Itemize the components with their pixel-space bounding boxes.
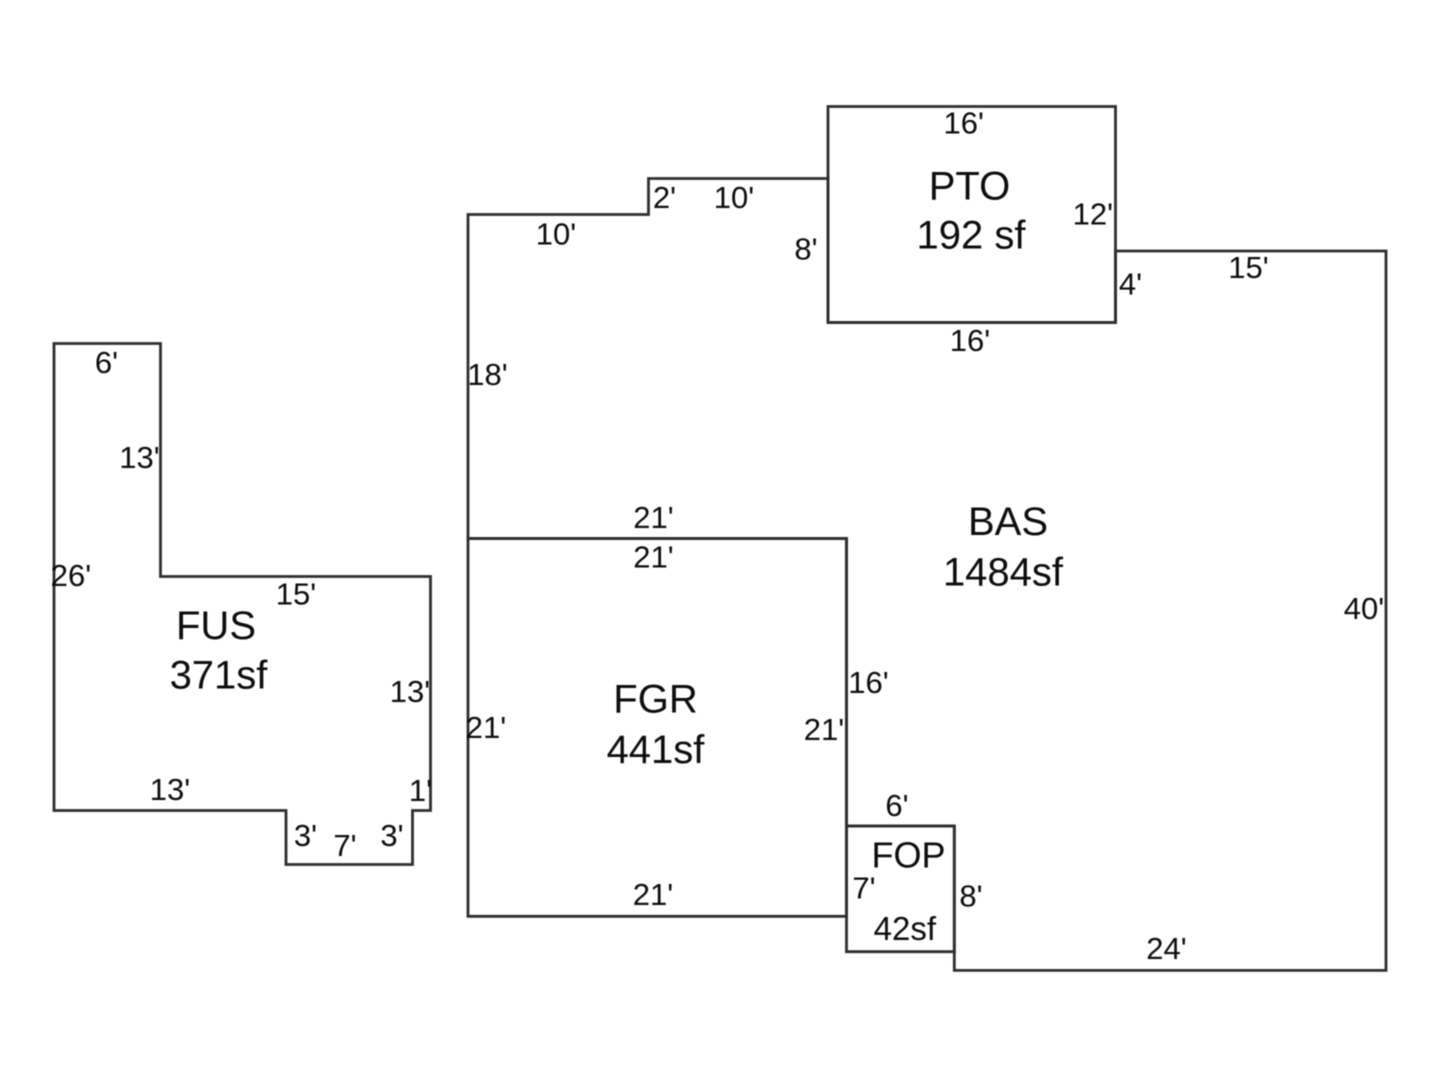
svg-text:16': 16' <box>950 323 990 358</box>
svg-text:26': 26' <box>51 558 91 593</box>
svg-text:21': 21' <box>633 540 673 575</box>
svg-text:8': 8' <box>794 231 817 266</box>
FGR outline <box>468 539 847 917</box>
svg-text:13': 13' <box>390 674 430 709</box>
svg-text:FGR: FGR <box>613 678 697 722</box>
svg-text:8': 8' <box>959 879 982 914</box>
svg-text:12': 12' <box>1073 197 1113 232</box>
svg-text:192 sf: 192 sf <box>917 214 1027 258</box>
svg-text:2': 2' <box>653 180 676 215</box>
svg-text:13': 13' <box>119 440 159 475</box>
svg-text:371sf: 371sf <box>170 654 269 698</box>
svg-text:40': 40' <box>1344 591 1384 626</box>
svg-text:6': 6' <box>885 788 908 823</box>
svg-text:FOP: FOP <box>871 835 945 876</box>
svg-text:7': 7' <box>333 828 356 863</box>
BAS outline <box>468 179 1386 971</box>
svg-text:7': 7' <box>852 870 875 905</box>
svg-text:21': 21' <box>633 877 673 912</box>
svg-text:10': 10' <box>536 217 576 252</box>
svg-text:21': 21' <box>633 500 673 535</box>
svg-text:441sf: 441sf <box>607 728 706 772</box>
svg-text:21': 21' <box>804 712 844 747</box>
svg-text:16': 16' <box>943 106 983 141</box>
svg-text:16': 16' <box>848 665 888 700</box>
svg-text:3': 3' <box>294 818 317 853</box>
svg-text:3': 3' <box>380 818 403 853</box>
svg-text:15': 15' <box>1228 250 1268 285</box>
FUS outline <box>54 344 431 865</box>
svg-text:18': 18' <box>467 357 507 392</box>
svg-text:13': 13' <box>150 772 190 807</box>
svg-text:4': 4' <box>1119 266 1142 301</box>
svg-text:FUS: FUS <box>176 604 256 648</box>
svg-text:21': 21' <box>466 710 506 745</box>
svg-text:PTO: PTO <box>929 165 1011 209</box>
svg-text:42sf: 42sf <box>874 910 937 947</box>
PTO outline <box>828 107 1116 323</box>
svg-text:24': 24' <box>1146 931 1186 966</box>
svg-text:6': 6' <box>95 345 118 380</box>
svg-text:BAS: BAS <box>968 500 1048 544</box>
svg-text:10': 10' <box>714 180 754 215</box>
svg-text:1484sf: 1484sf <box>943 551 1064 595</box>
svg-text:15': 15' <box>276 577 316 612</box>
FOP outline <box>847 826 955 952</box>
svg-text:1': 1' <box>409 773 432 808</box>
